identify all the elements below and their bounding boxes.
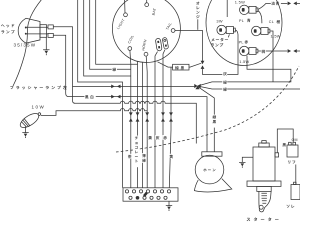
switch contact pill 1 [155,38,162,51]
label black/white (kuro-shiro) [84,94,95,99]
wire green 1 to CL lamp [198,56,291,86]
svg-text:1.5W: 1.5W [235,0,245,4]
horn bracket [202,152,222,156]
ground (block) [166,201,172,211]
connector pair on L1 [111,85,120,89]
connector pair on L2 [111,95,120,99]
label orange (orenji) vertical + leader [196,2,199,30]
wire HORN terminal down to node D [146,56,147,188]
terminal LIGHT [116,0,127,30]
label gray [223,72,226,75]
svg-text:OM: OM [292,138,298,142]
wire pill2 down to node F [163,50,165,188]
starter label [247,218,250,221]
bus wire to node A [78,0,123,188]
wire relay to solenoid [295,165,297,185]
svg-text:PL: PL [239,19,244,23]
bus wire to node C [96,0,138,188]
label CL orange [269,20,280,24]
meter lamp CL orange [252,26,281,38]
label green 1 [223,81,227,84]
meter lamp 3W [216,19,235,35]
wire black starter to relay [277,129,293,153]
connector pair pink [288,49,297,53]
meter lamp label [211,34,229,46]
wire L2 black/white to horn [69,97,208,152]
label PL blue [239,19,250,23]
terminal TAIL [165,22,175,33]
label light blue [271,2,279,5]
svg-text:10W: 10W [32,104,46,109]
label PL red [239,40,248,44]
svg-text:3W: 3W [216,19,222,24]
label green/black vertical [212,115,217,128]
label chocolate vertical [134,136,139,168]
main switch body [112,0,180,63]
solenoid label sore [287,205,290,208]
switch contact pill 2 [162,37,168,49]
horn trumpet [194,179,231,192]
starter motor body [253,141,279,181]
terminal BAT [145,0,157,16]
label black (kuro) [282,143,285,146]
wire node X from switch [142,62,144,187]
wire PL blue to CL lamp [258,10,262,23]
wire green 2 loop to PL red lamp [198,31,301,89]
terminal HORN [141,39,148,56]
headlamp reflector [18,18,53,43]
bus wire green to node B / COIL [90,0,131,188]
label light green (usu-midori) vertical [142,153,147,163]
relay box [287,138,298,157]
wire meter lamp feed from top [226,0,228,17]
meter panel circle [206,0,282,66]
wire pink (momo) [258,50,300,52]
meter lamp PL red [239,46,258,64]
block terminals bottom row [129,196,132,199]
wire L3 with humps to horn area [74,101,196,143]
svg-text:1.5W: 1.5W [271,33,281,38]
solenoid box [291,182,300,199]
horn label (ho-n) [203,168,206,171]
block keyed terminal [143,192,148,197]
headlamp label [1,24,15,34]
fan junction node [194,84,200,89]
label green 2 [223,88,227,91]
label green (midori) [112,67,117,72]
wire TAIL orange down [175,31,203,75]
wire green/black to horn right [198,86,215,151]
ground (flasher) [22,127,28,139]
wire L4 flasher feed with humps [41,109,147,116]
wire headlamp lo beam to L2 black/white [53,35,68,96]
svg-text:35/35W: 35/35W [14,43,37,48]
wire light blue (usuao) [258,3,300,9]
horn body [195,155,224,184]
relay label rifu [288,160,290,163]
wire pill1 down to node E [155,52,158,188]
block filled terminal [136,196,140,200]
flasher lamp label [10,86,13,89]
connector block [123,188,178,201]
meter lamp PL blue 1.5W [235,0,258,15]
wire node G down [169,67,171,188]
svg-text:PL: PL [239,40,244,44]
label pink [261,50,265,53]
dashed frame arc [116,66,299,152]
svg-text:CL: CL [269,20,274,24]
svg-text:1.5W: 1.5W [239,59,249,64]
connector pair light blue [288,2,297,6]
wire green/black boxed from switch [158,62,202,67]
labels yellow gray red row [148,135,168,140]
starter drive housing [257,186,271,191]
terminal COIL [127,34,135,50]
label box green/black [173,64,189,70]
wire gray (hai) to meter lamp [203,30,239,74]
starter flange [247,181,281,186]
label yellow (ki) right [169,154,174,159]
wire headlamp hi beam / L1 to 4-way joint [53,27,196,104]
block terminals top row [125,190,128,193]
connector pairs on harness verticals [129,112,133,121]
ground (starter) [239,157,253,168]
headlamp shell arc [13,0,42,86]
ground (headlamp) [43,37,49,55]
flasher lamp bulb [18,109,43,130]
label brown (cha) [127,154,132,159]
starter pinion and spring [259,191,271,211]
connector pair on orange wire [201,61,205,69]
bus wire to node B lower [84,0,131,76]
